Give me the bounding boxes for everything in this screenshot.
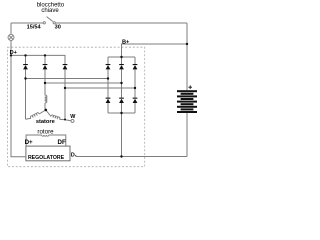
svg-text:REGOLATORE: REGOLATORE: [28, 155, 65, 161]
svg-text:chiave: chiave: [41, 8, 59, 14]
svg-text:30: 30: [55, 24, 61, 30]
svg-text:D-: D-: [71, 152, 77, 158]
svg-text:B+: B+: [122, 39, 130, 45]
svg-text:15/54: 15/54: [27, 24, 42, 30]
svg-text:DF: DF: [58, 139, 66, 146]
svg-text:D+: D+: [10, 50, 18, 56]
svg-text:D+: D+: [25, 139, 33, 146]
svg-text:rotore: rotore: [37, 128, 54, 135]
svg-text:W: W: [70, 114, 76, 120]
svg-text:statore: statore: [36, 119, 55, 125]
